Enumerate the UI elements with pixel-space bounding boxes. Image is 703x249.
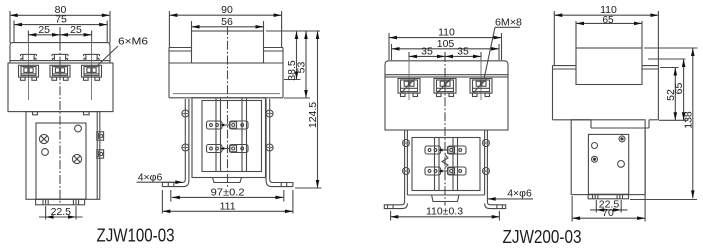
svg-text:110: 110 — [438, 27, 455, 39]
svg-text:65: 65 — [673, 83, 685, 95]
svg-text:35: 35 — [457, 45, 469, 57]
svg-text:ZJW200-03: ZJW200-03 — [503, 226, 582, 247]
svg-text:111: 111 — [220, 200, 236, 212]
svg-text:70: 70 — [602, 207, 614, 219]
svg-text:75: 75 — [55, 14, 67, 26]
svg-text:35: 35 — [421, 45, 433, 57]
svg-text:22.5: 22.5 — [51, 206, 72, 218]
svg-text:25: 25 — [70, 24, 82, 36]
svg-text:97±0.2: 97±0.2 — [211, 186, 245, 198]
svg-text:ZJW100-03: ZJW100-03 — [97, 225, 175, 246]
svg-text:105: 105 — [437, 38, 455, 50]
svg-text:25: 25 — [38, 24, 50, 36]
svg-text:4×φ6: 4×φ6 — [507, 188, 532, 200]
svg-text:124.5: 124.5 — [307, 102, 319, 128]
svg-text:6×M6: 6×M6 — [118, 35, 148, 47]
svg-text:138: 138 — [682, 111, 694, 129]
svg-text:65: 65 — [602, 15, 614, 26]
svg-text:53: 53 — [296, 62, 308, 74]
svg-text:110±0.3: 110±0.3 — [426, 205, 463, 217]
svg-text:90: 90 — [221, 4, 233, 16]
